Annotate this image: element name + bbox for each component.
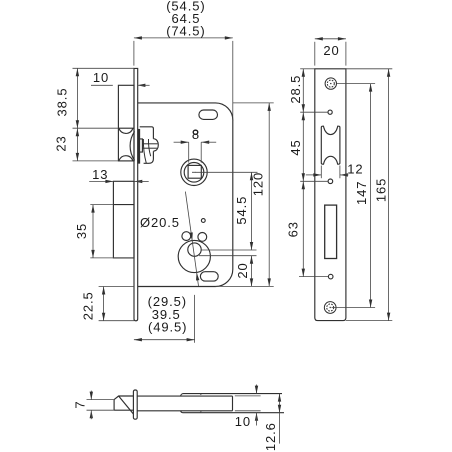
dim 165 line xyxy=(388,69,390,321)
roller circle arc xyxy=(130,131,135,160)
faceplate bottom view xyxy=(133,390,137,419)
38.5 arrow bottom xyxy=(76,120,79,128)
plate small hole 2 xyxy=(328,179,333,184)
dim 22.5 ext bottom xyxy=(99,320,134,322)
dim 12 ext right xyxy=(339,166,341,179)
svg-text:35: 35 xyxy=(74,223,89,239)
cylinder outer circle xyxy=(178,240,210,272)
20 arrow bottom xyxy=(250,278,253,286)
svg-text:(49.5): (49.5) xyxy=(148,320,187,335)
svg-text:(74.5): (74.5) xyxy=(166,24,205,39)
dim 22.5 arrow top xyxy=(102,287,105,295)
dim 8 arrow left xyxy=(181,141,189,144)
cover seam top xyxy=(200,394,201,395)
cylinder center ext xyxy=(199,255,257,257)
inner ext bottom xyxy=(235,410,261,412)
ext line y68 xyxy=(73,67,135,69)
28.5 arrow top xyxy=(302,69,305,77)
23 arrow top xyxy=(76,128,79,136)
spindle outer circle xyxy=(181,159,207,185)
svg-text:22.5: 22.5 xyxy=(81,291,96,320)
case bottom view xyxy=(137,396,232,411)
dim 8 ext right xyxy=(200,142,202,162)
latch mech tab xyxy=(140,139,143,152)
top dim arrow right xyxy=(225,36,233,39)
dia leader arrow bottom xyxy=(196,272,199,280)
28.5 arrow bottom xyxy=(302,104,305,112)
dim 22.5 line xyxy=(103,287,105,321)
45 arrow top xyxy=(302,112,305,120)
dim 35 ext top xyxy=(90,204,113,206)
svg-text:38.5: 38.5 xyxy=(55,88,70,117)
case bottom ext xyxy=(216,285,274,287)
dim 13 right tail xyxy=(134,180,148,182)
top cover plate xyxy=(181,394,282,397)
dim 147 ext bottom xyxy=(332,307,376,309)
latch bolt bottom view xyxy=(114,396,133,414)
backset dim line xyxy=(134,339,195,341)
svg-text:45: 45 xyxy=(288,139,303,155)
svg-text:20: 20 xyxy=(235,262,250,278)
latch housing divider xyxy=(118,127,134,129)
dim 20 line xyxy=(251,256,253,287)
svg-text:12: 12 xyxy=(347,162,363,177)
dim 35 arrow top xyxy=(91,205,94,213)
dim 8 arrow right xyxy=(201,141,209,144)
dim 22.5 ext top xyxy=(99,286,134,288)
svg-text:63: 63 xyxy=(286,221,301,237)
plate small hole 3 xyxy=(328,274,333,279)
plate 20 arrow right xyxy=(338,37,346,40)
small circle left above cylinder xyxy=(182,232,191,241)
top screw center dot xyxy=(330,83,331,84)
dim 7 ext bottom xyxy=(87,409,115,411)
small hole top xyxy=(193,130,198,135)
120 arrow top xyxy=(268,103,271,111)
inner ext top xyxy=(235,395,261,397)
top screw hole outer xyxy=(325,78,336,89)
dim 165 ext top xyxy=(346,68,392,70)
12.6 arrow bottom xyxy=(278,405,281,413)
dim 147 line xyxy=(370,84,372,308)
case top ext xyxy=(233,102,274,104)
dim 10b arrow bottom xyxy=(255,413,258,421)
backset arrow left xyxy=(134,338,142,341)
dim 8 ext left xyxy=(188,142,190,162)
bottom screw center dot xyxy=(330,307,331,308)
dim 12 left tail xyxy=(306,174,322,176)
cylinder housing divider xyxy=(113,204,134,206)
top dim line 74.5 xyxy=(134,37,233,39)
latch mech strip left curve xyxy=(143,139,146,163)
dim 8 right tail xyxy=(201,141,216,143)
spindle inner circle xyxy=(184,163,204,183)
plate 20 ext left xyxy=(314,42,316,66)
dim 7 arrow top xyxy=(90,392,93,400)
120 arrow bottom xyxy=(268,278,271,286)
dim 12 ext left xyxy=(320,166,322,179)
latch mech body lower xyxy=(144,151,154,163)
bottom screw hole inner xyxy=(327,304,334,311)
dim 10b bottom tail xyxy=(256,413,258,426)
dim 35 arrow bottom xyxy=(91,250,94,258)
45 arrow bottom xyxy=(302,173,305,181)
12.6 arrow top xyxy=(278,394,281,402)
dim 7 top tail xyxy=(90,391,92,400)
latch mech shaft line 2 xyxy=(142,147,157,149)
dim 12 arrow left xyxy=(313,173,321,176)
38.5 arrow top xyxy=(76,68,79,76)
top oval slot xyxy=(199,110,218,119)
backset arrow right xyxy=(187,338,195,341)
dia leader line xyxy=(185,192,198,286)
dim 54.5 line xyxy=(251,172,253,250)
147 arrow top xyxy=(369,84,372,92)
dim 10b top tail xyxy=(256,385,258,394)
left dim line xyxy=(76,68,78,161)
svg-text:120: 120 xyxy=(251,172,266,196)
cylinder cam ext xyxy=(201,249,256,251)
bottom screw hole outer xyxy=(324,302,336,314)
plate ext y112 xyxy=(300,111,328,113)
dim 7 bottom tail xyxy=(90,410,92,419)
dim 13 arrow left xyxy=(105,180,113,183)
ext line y128 xyxy=(73,127,119,129)
63 arrow bottom xyxy=(302,269,305,277)
spindle square hole xyxy=(188,165,201,178)
roller top concave arc xyxy=(119,128,133,133)
latch mech body upper xyxy=(140,127,154,139)
svg-text:13: 13 xyxy=(92,167,108,182)
dim 10 right tail xyxy=(137,84,149,86)
165 arrow top xyxy=(387,69,390,77)
bottom oval slot xyxy=(200,272,218,281)
svg-text:10: 10 xyxy=(235,414,251,429)
dim 22.5 arrow bottom xyxy=(102,313,105,321)
tiny hole mid xyxy=(201,219,205,223)
svg-text:28.5: 28.5 xyxy=(288,75,303,104)
svg-text:12.6: 12.6 xyxy=(263,422,278,451)
svg-text:23: 23 xyxy=(54,135,69,151)
cylinder housing xyxy=(113,181,134,258)
plate dim 20 line xyxy=(315,38,346,40)
latch housing xyxy=(118,85,134,161)
svg-text:20: 20 xyxy=(323,43,339,58)
latch cutout xyxy=(321,126,340,164)
spindle center ext xyxy=(196,171,258,173)
svg-text:54.5: 54.5 xyxy=(234,196,249,225)
plate left chain dim line xyxy=(302,69,304,277)
plate small hole 1 xyxy=(328,110,332,114)
top screw hole inner xyxy=(327,80,334,87)
165 arrow bottom xyxy=(387,313,390,321)
54.5 arrow bottom xyxy=(250,242,253,250)
top dim arrow left xyxy=(134,36,142,39)
keyhole cutout xyxy=(325,205,337,258)
dim 12 right tail xyxy=(340,174,349,176)
dim 10 left tail xyxy=(91,84,113,86)
top dim ext right xyxy=(232,41,234,121)
dim 120 line xyxy=(268,103,270,287)
plate 20 arrow left xyxy=(315,37,323,40)
latch mech nose xyxy=(153,139,158,152)
ext line y161 xyxy=(73,160,119,162)
spindle center mark xyxy=(192,171,196,173)
faceplate front view xyxy=(315,69,346,321)
dim 13 left tail xyxy=(89,180,113,182)
dim 8 left tail xyxy=(174,141,189,143)
dim 35 line xyxy=(92,205,94,258)
svg-text:Ø20.5: Ø20.5 xyxy=(140,215,180,230)
dim 10b arrow top xyxy=(255,386,258,394)
147 arrow bottom xyxy=(369,300,372,308)
plate ext y277 xyxy=(299,276,328,278)
svg-text:7: 7 xyxy=(72,401,87,409)
small circle right above cylinder xyxy=(198,233,207,242)
svg-text:147: 147 xyxy=(354,181,369,205)
plate ext y181 xyxy=(300,180,328,182)
dim 35 ext bottom xyxy=(90,257,134,259)
63 arrow top xyxy=(302,181,305,189)
plate 20 ext right xyxy=(345,42,347,66)
cover seam bottom xyxy=(200,411,201,412)
roller bottom concave arc xyxy=(119,156,133,161)
dim 13 arrow right xyxy=(134,180,142,183)
dia leader arrow top xyxy=(189,232,192,240)
cylinder cam circle xyxy=(188,243,201,256)
svg-text:8: 8 xyxy=(192,127,200,142)
dim 10 arrow right xyxy=(137,84,145,87)
latch mech shaft line 1 xyxy=(142,143,157,145)
svg-text:10: 10 xyxy=(93,70,109,85)
faceplate main view xyxy=(134,68,138,320)
54.5 arrow top xyxy=(250,172,253,180)
top dim ext left xyxy=(133,41,135,66)
bottom cover plate xyxy=(181,411,284,413)
svg-text:165: 165 xyxy=(374,178,389,202)
dim 165 ext bottom xyxy=(346,320,392,322)
dim 12.6 line xyxy=(279,394,281,444)
latch bolt bar xyxy=(138,129,140,163)
dim 7 arrow bottom xyxy=(90,410,93,418)
dim 12 arrow right xyxy=(340,173,348,176)
dim 147 ext top xyxy=(337,83,375,85)
lock case outline xyxy=(138,103,233,287)
plate ext y68 xyxy=(300,68,315,70)
latch mech strip right curve xyxy=(148,139,150,156)
23 arrow bottom xyxy=(76,153,79,161)
20 arrow top xyxy=(250,256,253,264)
backset ext right xyxy=(194,295,196,343)
dim 7 ext top xyxy=(87,399,115,401)
